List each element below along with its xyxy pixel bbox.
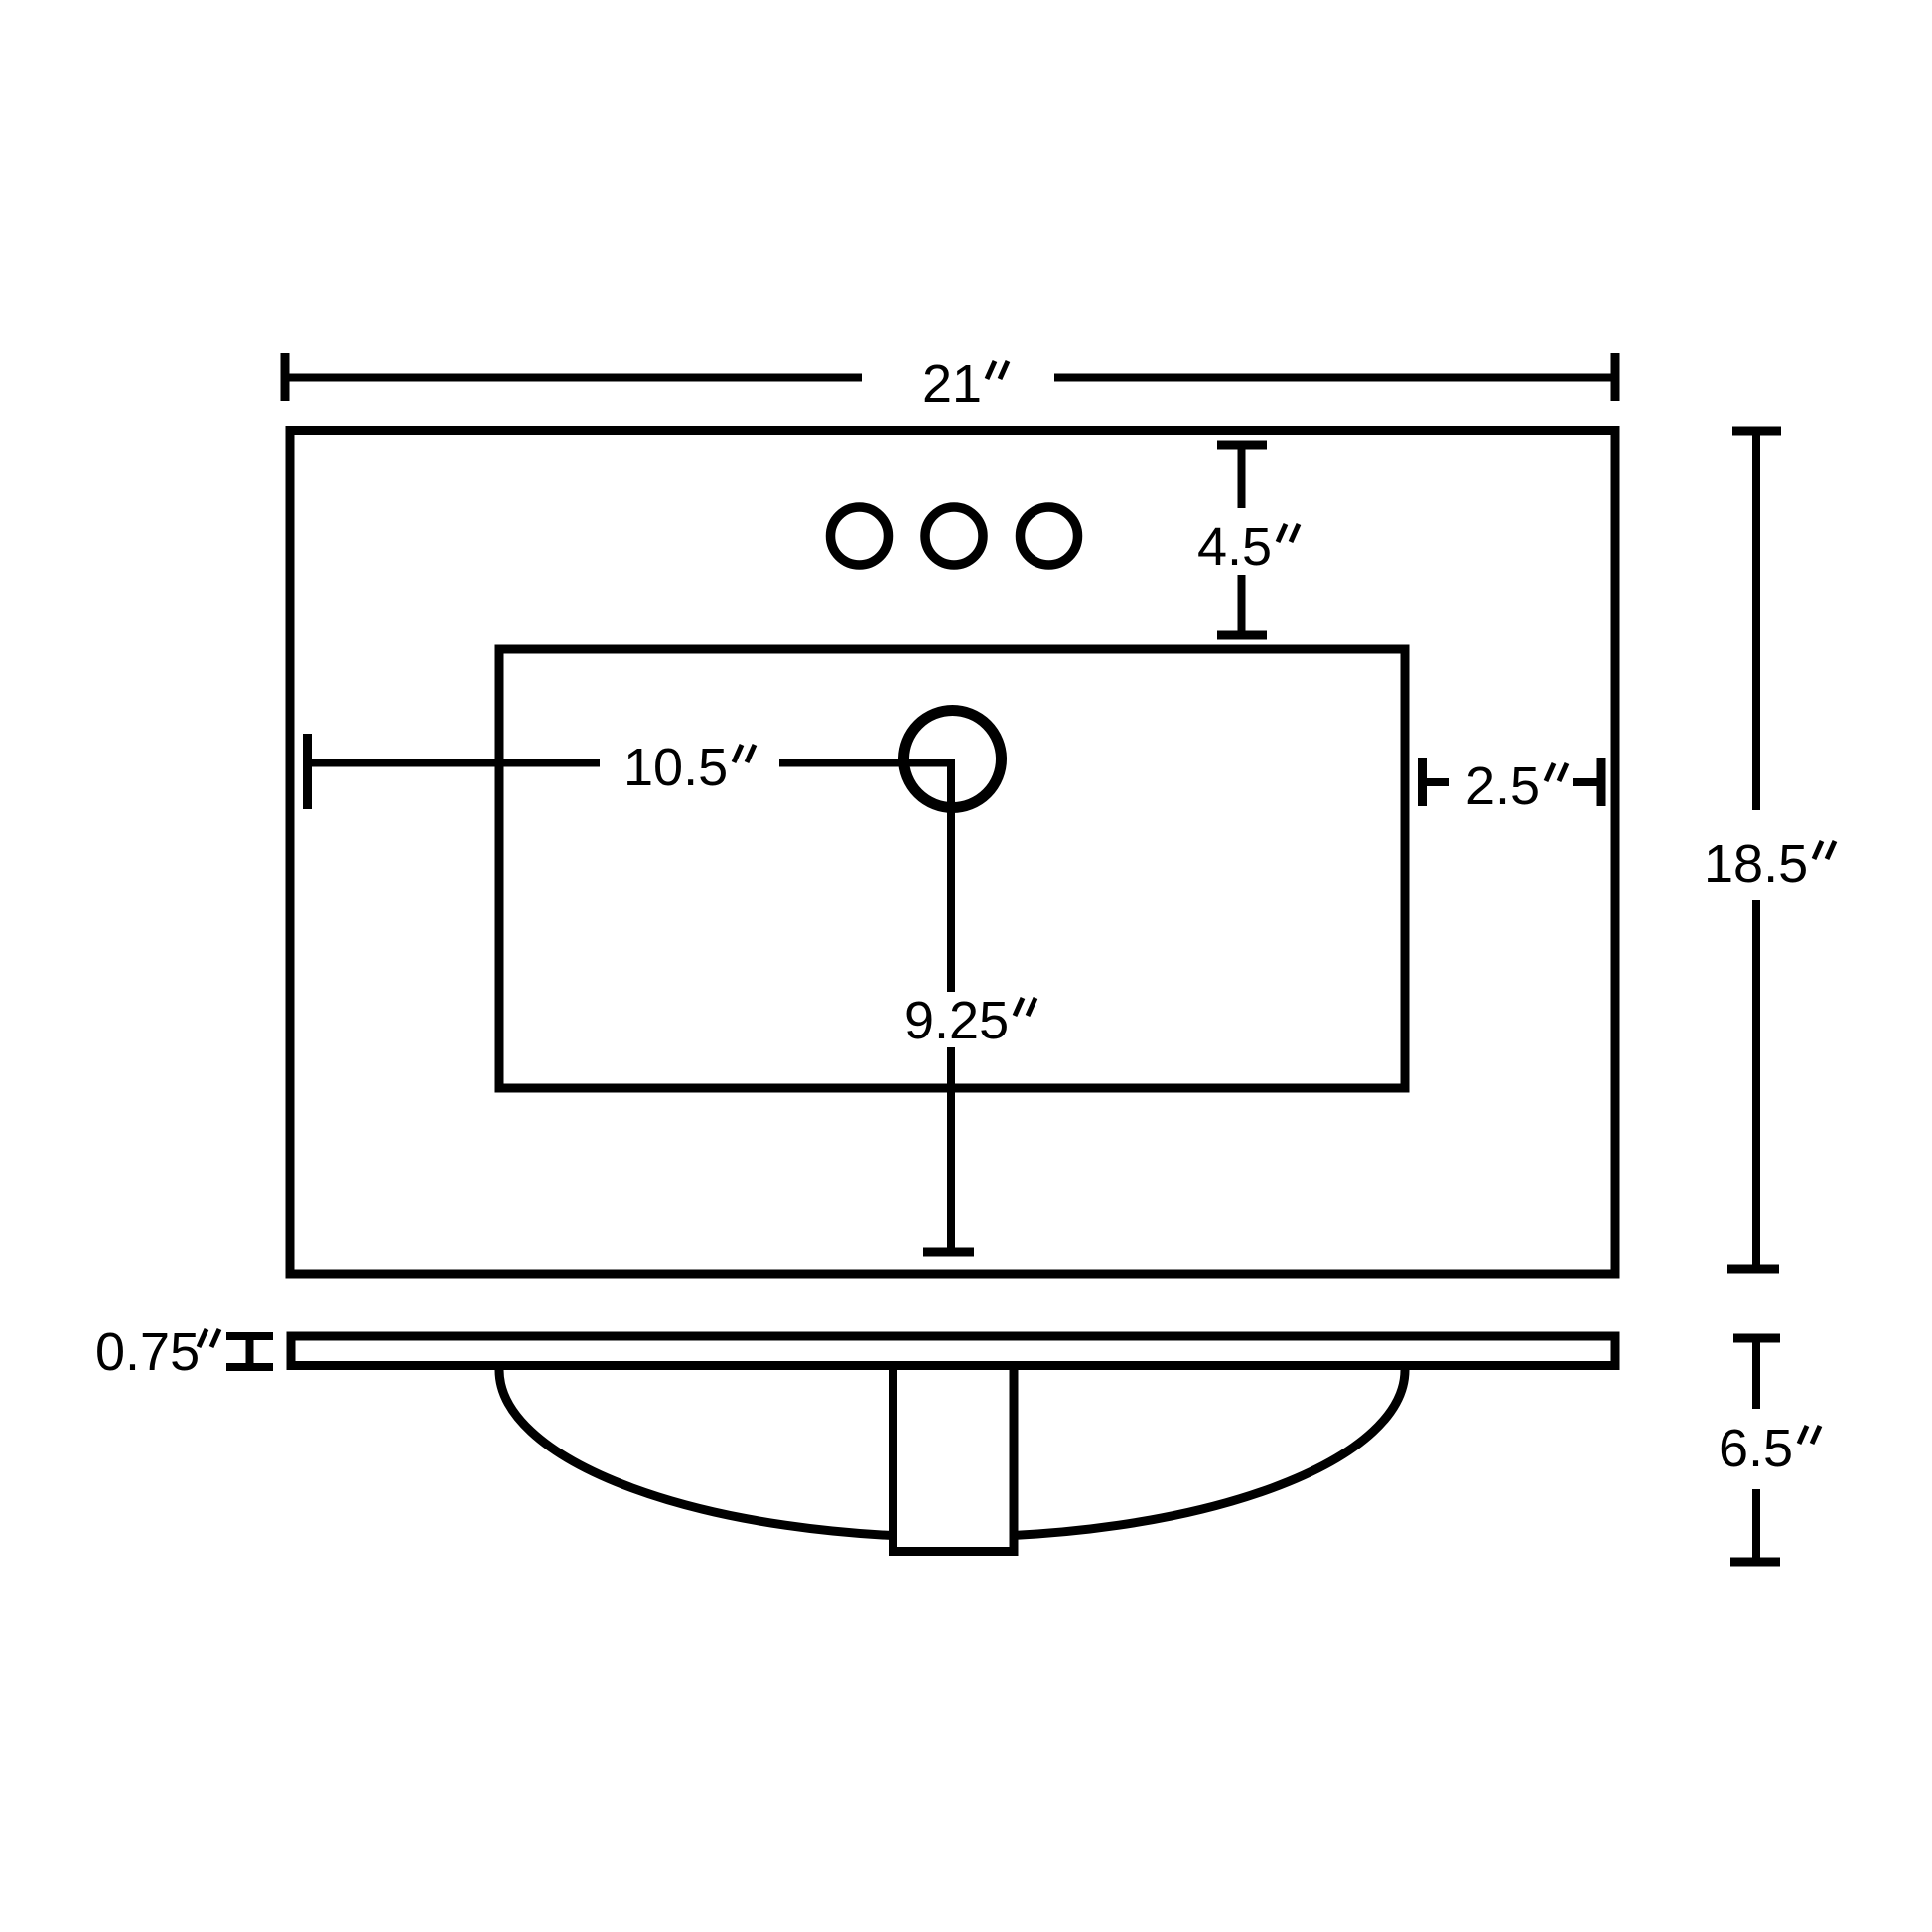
label 9.25in inch marks: [1015, 998, 1035, 1016]
label 4.5in inch marks: [1278, 524, 1299, 542]
faucet hole right: [1021, 507, 1078, 565]
svg-text:9.25: 9.25: [904, 991, 1009, 1050]
dimension 6.5in line lower segment: [1752, 1489, 1760, 1562]
dimension 4.5in bottom tick: [1217, 631, 1267, 640]
dimension 0.75in collapsed tick top bar: [226, 1332, 273, 1340]
dimension 2.5in left tick: [1418, 758, 1427, 806]
dimension 2.5in right stub: [1573, 778, 1601, 786]
svg-text:4.5: 4.5: [1197, 517, 1272, 577]
dimension 10.5in line right segment with corner to drain center: [779, 763, 951, 993]
dimension 4.5in line upper segment: [1238, 445, 1246, 508]
dimension 21in right tick: [1611, 353, 1620, 401]
dimension 10.5in line left segment: [308, 759, 601, 767]
svg-text:0.75: 0.75: [95, 1322, 200, 1382]
svg-text:2.5: 2.5: [1465, 757, 1540, 816]
label 0.75in inch marks: [199, 1329, 219, 1347]
dimension 10.5in left tick: [303, 734, 312, 809]
dimension 18.5in line lower segment: [1752, 900, 1760, 1269]
dimension 0.75in tick vertical: [246, 1336, 254, 1367]
countertop outer rectangle (top view): [290, 431, 1615, 1275]
dimension 21in line right segment: [1054, 374, 1615, 382]
label 18.5in inch marks: [1814, 841, 1835, 859]
drain pipe rectangle (side view): [894, 1366, 1015, 1552]
dimension 4.5in top tick: [1217, 441, 1267, 450]
dimension 6.5in line upper segment: [1752, 1338, 1760, 1409]
dimension 9.25in line lower segment: [947, 1047, 955, 1252]
svg-text:6.5: 6.5: [1719, 1419, 1793, 1478]
svg-text:18.5: 18.5: [1704, 834, 1808, 894]
dimension 6.5in bottom tick: [1730, 1558, 1780, 1567]
dimension 0.75in collapsed tick bottom bar: [226, 1363, 273, 1371]
svg-text:10.5: 10.5: [623, 738, 728, 797]
label 2.5in inch marks: [1546, 763, 1567, 781]
dimension 6.5in top tick: [1733, 1334, 1780, 1343]
faucet hole left: [831, 507, 889, 565]
bowl underside curve (side view): [499, 1370, 1405, 1537]
label 10.5in inch marks: [734, 745, 755, 762]
dimension 18.5in top tick: [1732, 427, 1781, 436]
drain hole circle: [904, 711, 1002, 808]
dimension 2.5in left stub: [1423, 778, 1449, 786]
dimension 18.5in line upper segment: [1752, 431, 1760, 810]
svg-text:21: 21: [922, 354, 982, 414]
dimension 2.5in right tick: [1597, 758, 1606, 806]
dimension 18.5in bottom tick: [1727, 1265, 1779, 1274]
label 6.5in inch marks: [1799, 1426, 1820, 1444]
label 21in inch marks: [987, 361, 1008, 379]
dimension 9.25in bottom tick: [923, 1248, 974, 1257]
dimension 4.5in line lower segment: [1238, 575, 1246, 635]
dimension 21in left tick: [281, 353, 290, 401]
sink bowl inner rectangle (top view): [499, 649, 1405, 1088]
dimension 21in line left segment: [285, 374, 862, 382]
faucet hole center: [925, 507, 983, 565]
countertop slab (side view): [291, 1336, 1615, 1366]
